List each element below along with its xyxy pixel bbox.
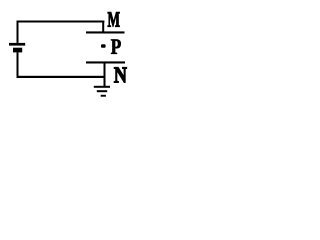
plate N (lower electrode line) — [86, 61, 125, 63]
node dot in P region — [101, 44, 106, 48]
battery long plate (positive) — [9, 43, 25, 46]
battery short thick plate (negative) — [13, 48, 22, 53]
label P — [111, 39, 121, 53]
wire bottom — [17, 76, 106, 78]
label N — [114, 68, 127, 83]
ground bar 1 — [94, 86, 110, 88]
ground bar 2 — [97, 90, 107, 92]
wire left upper — [17, 21, 19, 43]
ground bar 3 — [101, 95, 106, 97]
wire right vertical to ground — [104, 62, 106, 86]
label M — [108, 12, 120, 26]
plate M (metal electrode line) — [86, 31, 125, 33]
wire top — [17, 21, 105, 23]
wire left lower — [17, 52, 19, 78]
wire step down to plate M — [102, 21, 104, 34]
